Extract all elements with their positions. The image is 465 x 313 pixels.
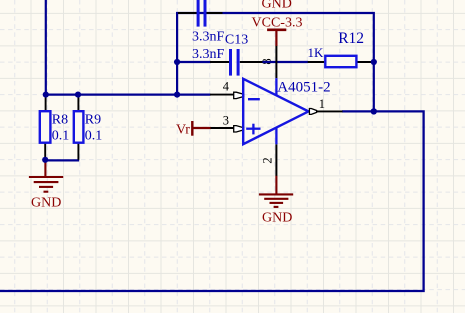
pin 1 output arrow	[309, 109, 316, 115]
op-amp U output pin 1 lead	[317, 110, 343, 112]
label Vr	[176, 123, 190, 138]
pin 3 arrow	[234, 126, 244, 132]
resistor R9	[74, 95, 84, 160]
designator R9	[85, 113, 101, 128]
designator R12	[338, 30, 364, 47]
svg-text:C13: C13	[225, 33, 248, 48]
value 3.3nF	[192, 47, 225, 62]
op-amp inverting input marker (minus)	[248, 98, 260, 100]
capacitor C13	[210, 49, 263, 76]
resistor R8	[40, 95, 51, 160]
pin number 2 (rotated)	[260, 157, 274, 163]
wire C13 net segment left	[177, 61, 211, 63]
value 0.1	[52, 128, 70, 143]
node GND (top net label, cut off)	[262, 0, 292, 12]
svg-text:R12: R12	[338, 30, 364, 47]
designator R8	[52, 113, 68, 128]
label VCC-3.3	[252, 16, 303, 31]
value 1K	[308, 45, 325, 60]
op-amp U A4051-2 triangle body	[243, 79, 308, 144]
svg-text:Vr: Vr	[176, 123, 190, 138]
junction node (R9 top)	[75, 92, 81, 98]
resistor R12	[308, 56, 374, 67]
svg-text:A4051-2: A4051-2	[277, 80, 330, 96]
svg-text:1K: 1K	[308, 45, 325, 60]
svg-text:0.1: 0.1	[52, 128, 70, 143]
wire left vertical + horizontal to pin 4 net	[46, 0, 211, 95]
svg-text:4: 4	[223, 79, 230, 93]
svg-text:VCC-3.3: VCC-3.3	[252, 16, 303, 31]
label 3.3nF (top)	[192, 29, 225, 44]
junction node A (left wire / R8)	[43, 92, 49, 98]
pin number 4	[223, 79, 230, 93]
svg-text:GND: GND	[262, 211, 292, 226]
pin number 8 (op-amp power pin, rotated)	[260, 58, 274, 64]
op-amp U A4051-2 power pin 8	[275, 46, 277, 96]
svg-text:2: 2	[260, 157, 274, 163]
op-amp non-inverting input marker (plus)	[246, 124, 260, 135]
op-amp U A4051-2 ground pin 2	[275, 128, 277, 176]
wire R8/R9 bottom connection	[45, 159, 79, 161]
value 0.1	[85, 128, 103, 143]
wire top feedback net: up-right-down loop through top capacitor and R12 column	[177, 13, 374, 111]
port Vr	[192, 121, 211, 136]
op-amp U pin 3 lead	[211, 127, 235, 129]
svg-text:R9: R9	[85, 113, 101, 128]
junction node (feedback column at pin4 net)	[174, 92, 180, 98]
svg-text:3.3nF: 3.3nF	[192, 29, 225, 44]
pin number 3	[223, 114, 229, 128]
junction node (output / feedback column)	[371, 108, 377, 114]
power VCC-3.3	[267, 30, 286, 46]
svg-text:3: 3	[223, 114, 229, 128]
svg-text:1: 1	[319, 97, 325, 111]
pin 4 arrow	[234, 92, 244, 98]
svg-text:3.3nF: 3.3nF	[192, 47, 225, 62]
junction node (R12 right / feedback column)	[371, 59, 377, 65]
svg-text:GND: GND	[31, 196, 61, 211]
junction node (R8 bottom / ground)	[42, 157, 48, 163]
wire C13 to R12 net segment	[262, 61, 308, 63]
svg-text:GND: GND	[262, 0, 292, 12]
svg-text:R8: R8	[52, 113, 68, 128]
designator C13	[225, 33, 248, 48]
pin number 1	[319, 97, 325, 111]
op-amp U pin 4 lead	[210, 94, 234, 96]
label GND (left)	[31, 196, 61, 211]
label GND (center)	[262, 211, 292, 226]
ground GND (left, below R8/R9)	[29, 160, 63, 192]
junction node (feedback column at C13 net)	[174, 59, 180, 65]
wire output net to right and bottom loop	[0, 111, 424, 291]
designator A4051-2	[277, 80, 330, 96]
svg-text:0.1: 0.1	[85, 128, 103, 143]
capacitor top (unlabeled, cut by crop)	[178, 0, 223, 27]
ground GND (below op-amp pin 2)	[259, 176, 293, 207]
